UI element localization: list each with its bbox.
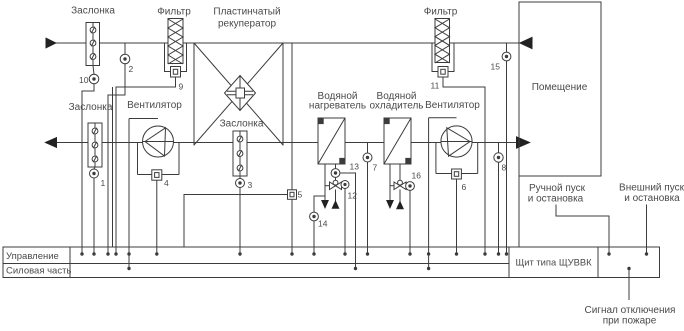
wire: bottom duct (exhaust/supply air) (46, 142, 517, 144)
wire: actuator 1 to panel (92, 178, 95, 256)
wire: sensor 5 to panel (290, 199, 293, 255)
svg-text:Заслонка: Заслонка (71, 6, 115, 17)
damper D1 (outdoor air) (86, 23, 100, 66)
damper D2 (exhaust) (88, 123, 102, 167)
svg-text:6: 6 (462, 182, 467, 192)
fan V1 (exhaust) (143, 126, 174, 157)
svg-text:5: 5 (298, 190, 303, 200)
svg-text:рекуператор: рекуператор (218, 19, 277, 30)
svg-text:10: 10 (79, 75, 89, 85)
label: Пластинчатый рекуператор (213, 7, 280, 30)
wire: contact 4 to panel (155, 180, 158, 256)
wire: fan V1 power to panel (127, 119, 130, 271)
label 12 (348, 191, 358, 201)
svg-text:3: 3 (248, 180, 253, 190)
label: Вентилятор (V1) (127, 100, 182, 111)
label 13 (350, 162, 360, 172)
svg-text:14: 14 (318, 219, 328, 229)
duct sensor 5 (exhaust) (288, 43, 297, 199)
filter F2 (435, 19, 450, 64)
wire: top duct (outdoor/return air) (55, 42, 519, 44)
arrow: outdoor air intake (46, 38, 56, 48)
svg-text:Внешний пуск: Внешний пуск (619, 183, 684, 194)
arrow: cooler water up (397, 202, 403, 209)
wire: manual start/stop to panel (556, 205, 611, 256)
wire: sensor 15 to panel (505, 61, 508, 256)
svg-text:13: 13 (350, 162, 360, 172)
label 4 (164, 178, 169, 188)
label 10 (79, 75, 89, 85)
label: Ручной пуск и остановка (528, 183, 586, 205)
arrow: water supply up (332, 201, 338, 208)
actuator 10 (damper D1 drive) (89, 66, 99, 84)
thermal contact 6 (fan V2 motor) (452, 169, 462, 179)
wire: actuator 3 to panel (238, 188, 241, 256)
svg-text:и остановка: и остановка (624, 193, 680, 204)
pressure sensor 11 (438, 67, 448, 78)
svg-text:7: 7 (373, 163, 378, 173)
actuator 3 (damper D3 drive) (236, 176, 245, 188)
wire: actuator 12 to panel (343, 189, 346, 256)
thermal contact 4 (fan V1 motor) (152, 170, 162, 180)
wire: room to panel (518, 176, 520, 247)
arrow: cooler water down (387, 201, 393, 208)
valve 16 (3-way, cooler) (390, 180, 406, 189)
wire: fire shutdown signal (627, 267, 630, 300)
svg-text:1: 1 (101, 178, 106, 188)
pipe: cooler supply (399, 164, 401, 209)
svg-text:Ручной пуск: Ручной пуск (529, 183, 586, 194)
arrow: return air from room (520, 37, 532, 48)
wire: actuator 10 to panel (80, 84, 94, 256)
filter F2 housing (432, 43, 454, 72)
arrow: supply air to room (517, 137, 530, 148)
pipe tap to sensor 14 (314, 196, 325, 212)
svg-text:4: 4 (164, 178, 169, 188)
label: Водяной охладитель (369, 91, 423, 112)
wire: contact 6 to panel (455, 179, 458, 256)
svg-text:Заслонка: Заслонка (69, 102, 113, 113)
svg-text:нагреватель: нагреватель (309, 101, 366, 112)
wire: sensor 5 side branch (184, 195, 288, 248)
fan V2 frame (429, 118, 478, 174)
sensor 13 (return water temp) (331, 169, 340, 178)
label 8 (502, 163, 507, 173)
sensor 8 (supply air after fan) (494, 143, 503, 163)
wire: sensor 2 to panel (106, 64, 125, 256)
control panel (Щит) (3, 247, 660, 278)
label: Управление (6, 251, 59, 262)
pipe: heater supply (335, 164, 337, 208)
svg-text:Заслонка: Заслонка (220, 119, 264, 130)
svg-text:16: 16 (412, 171, 422, 181)
wire: sensor 9 to panel (113, 77, 176, 256)
recuperator body (194, 43, 283, 146)
label 14 (318, 219, 328, 229)
label: Фильтр (F2) (424, 7, 458, 18)
pressure sensor 9 (171, 67, 181, 78)
label 7 (373, 163, 378, 173)
wire: sensor 8 to panel (497, 162, 500, 256)
label: Щит типа ЩУВВК (515, 257, 592, 268)
label: Заслонка (D2) (69, 102, 113, 113)
label 3 (248, 180, 253, 190)
svg-text:Управление: Управление (6, 251, 59, 262)
wire: sensor 13 to panel (340, 173, 357, 270)
filter F1 housing (165, 43, 187, 72)
svg-text:при пожаре: при пожаре (603, 316, 657, 327)
svg-text:8: 8 (502, 163, 507, 173)
label: Вентилятор (V2) (425, 100, 480, 111)
label: Заслонка (D1) (71, 6, 115, 17)
sensor 15 (return air temp) (502, 43, 511, 61)
label: Сигнал отключения при пожаре (585, 305, 676, 327)
label: Водяной нагреватель (309, 91, 366, 112)
recuperator core (diamond) (225, 76, 256, 111)
label: Заслонка (D3) (220, 119, 264, 130)
svg-text:Пластинчатый: Пластинчатый (213, 7, 280, 18)
svg-text:Фильтр: Фильтр (424, 7, 458, 18)
svg-text:Фильтр: Фильтр (157, 7, 191, 18)
filter F1 (168, 19, 183, 65)
label 6 (462, 182, 467, 192)
wire: sensor 14 to panel (312, 221, 315, 256)
actuator 12 drive (341, 181, 349, 189)
svg-text:11: 11 (431, 81, 440, 91)
svg-text:2: 2 (129, 64, 134, 74)
room (Помещение) (519, 2, 601, 176)
wire: sensor 7 to panel (366, 162, 369, 256)
svg-text:12: 12 (348, 191, 358, 201)
pipe: cooler return (389, 164, 391, 201)
wire: external start/stop to panel (645, 205, 648, 256)
svg-text:15: 15 (491, 62, 501, 72)
arrow: water return down (322, 201, 328, 208)
sensor 2 (outdoor temp) (120, 43, 130, 64)
svg-text:Щит типа ЩУВВК: Щит типа ЩУВВК (515, 257, 592, 268)
svg-text:Силовая часть: Силовая часть (6, 265, 71, 276)
label: Внешний пуск и остановка (619, 183, 684, 205)
label 16 (412, 171, 422, 181)
sensor 14 (return water) (310, 212, 319, 221)
label 9 (179, 82, 184, 92)
cooler (Водяной охладитель) (384, 118, 411, 164)
svg-text:охладитель: охладитель (369, 101, 423, 112)
wire: fan V2 power to panel (427, 118, 430, 270)
valve 12 (3-way, heater) (325, 180, 342, 189)
label 5 (298, 190, 303, 200)
sensor 7 (supply air temp) (363, 143, 372, 163)
svg-text:Вентилятор: Вентилятор (127, 100, 182, 111)
svg-text:9: 9 (179, 82, 184, 92)
heater (Водяной нагреватель) (318, 118, 345, 164)
label 2 (129, 64, 134, 74)
svg-text:Вентилятор: Вентилятор (425, 100, 480, 111)
svg-text:и остановка: и остановка (528, 194, 584, 205)
svg-text:Сигнал отключения: Сигнал отключения (585, 305, 676, 316)
pipe: heater return (324, 164, 326, 201)
label: Фильтр (F1) (157, 7, 191, 18)
svg-text:Помещение: Помещение (532, 82, 588, 93)
damper D3 (recirculation) (233, 131, 247, 176)
actuator 16 drive (406, 182, 415, 191)
fan V2 (supply) (441, 126, 472, 157)
wire: sensor 11 to panel (443, 77, 487, 256)
label: Силовая часть (6, 265, 71, 276)
label 11 (431, 81, 440, 91)
actuator 1 (damper D2 drive) (90, 167, 99, 178)
fan V1 frame (129, 119, 179, 175)
label 15 (491, 62, 501, 72)
wire: actuator 16 to panel (408, 190, 411, 255)
arrow: exhaust air outlet (46, 138, 57, 148)
label 1 (101, 178, 106, 188)
label: Помещение (532, 82, 588, 93)
